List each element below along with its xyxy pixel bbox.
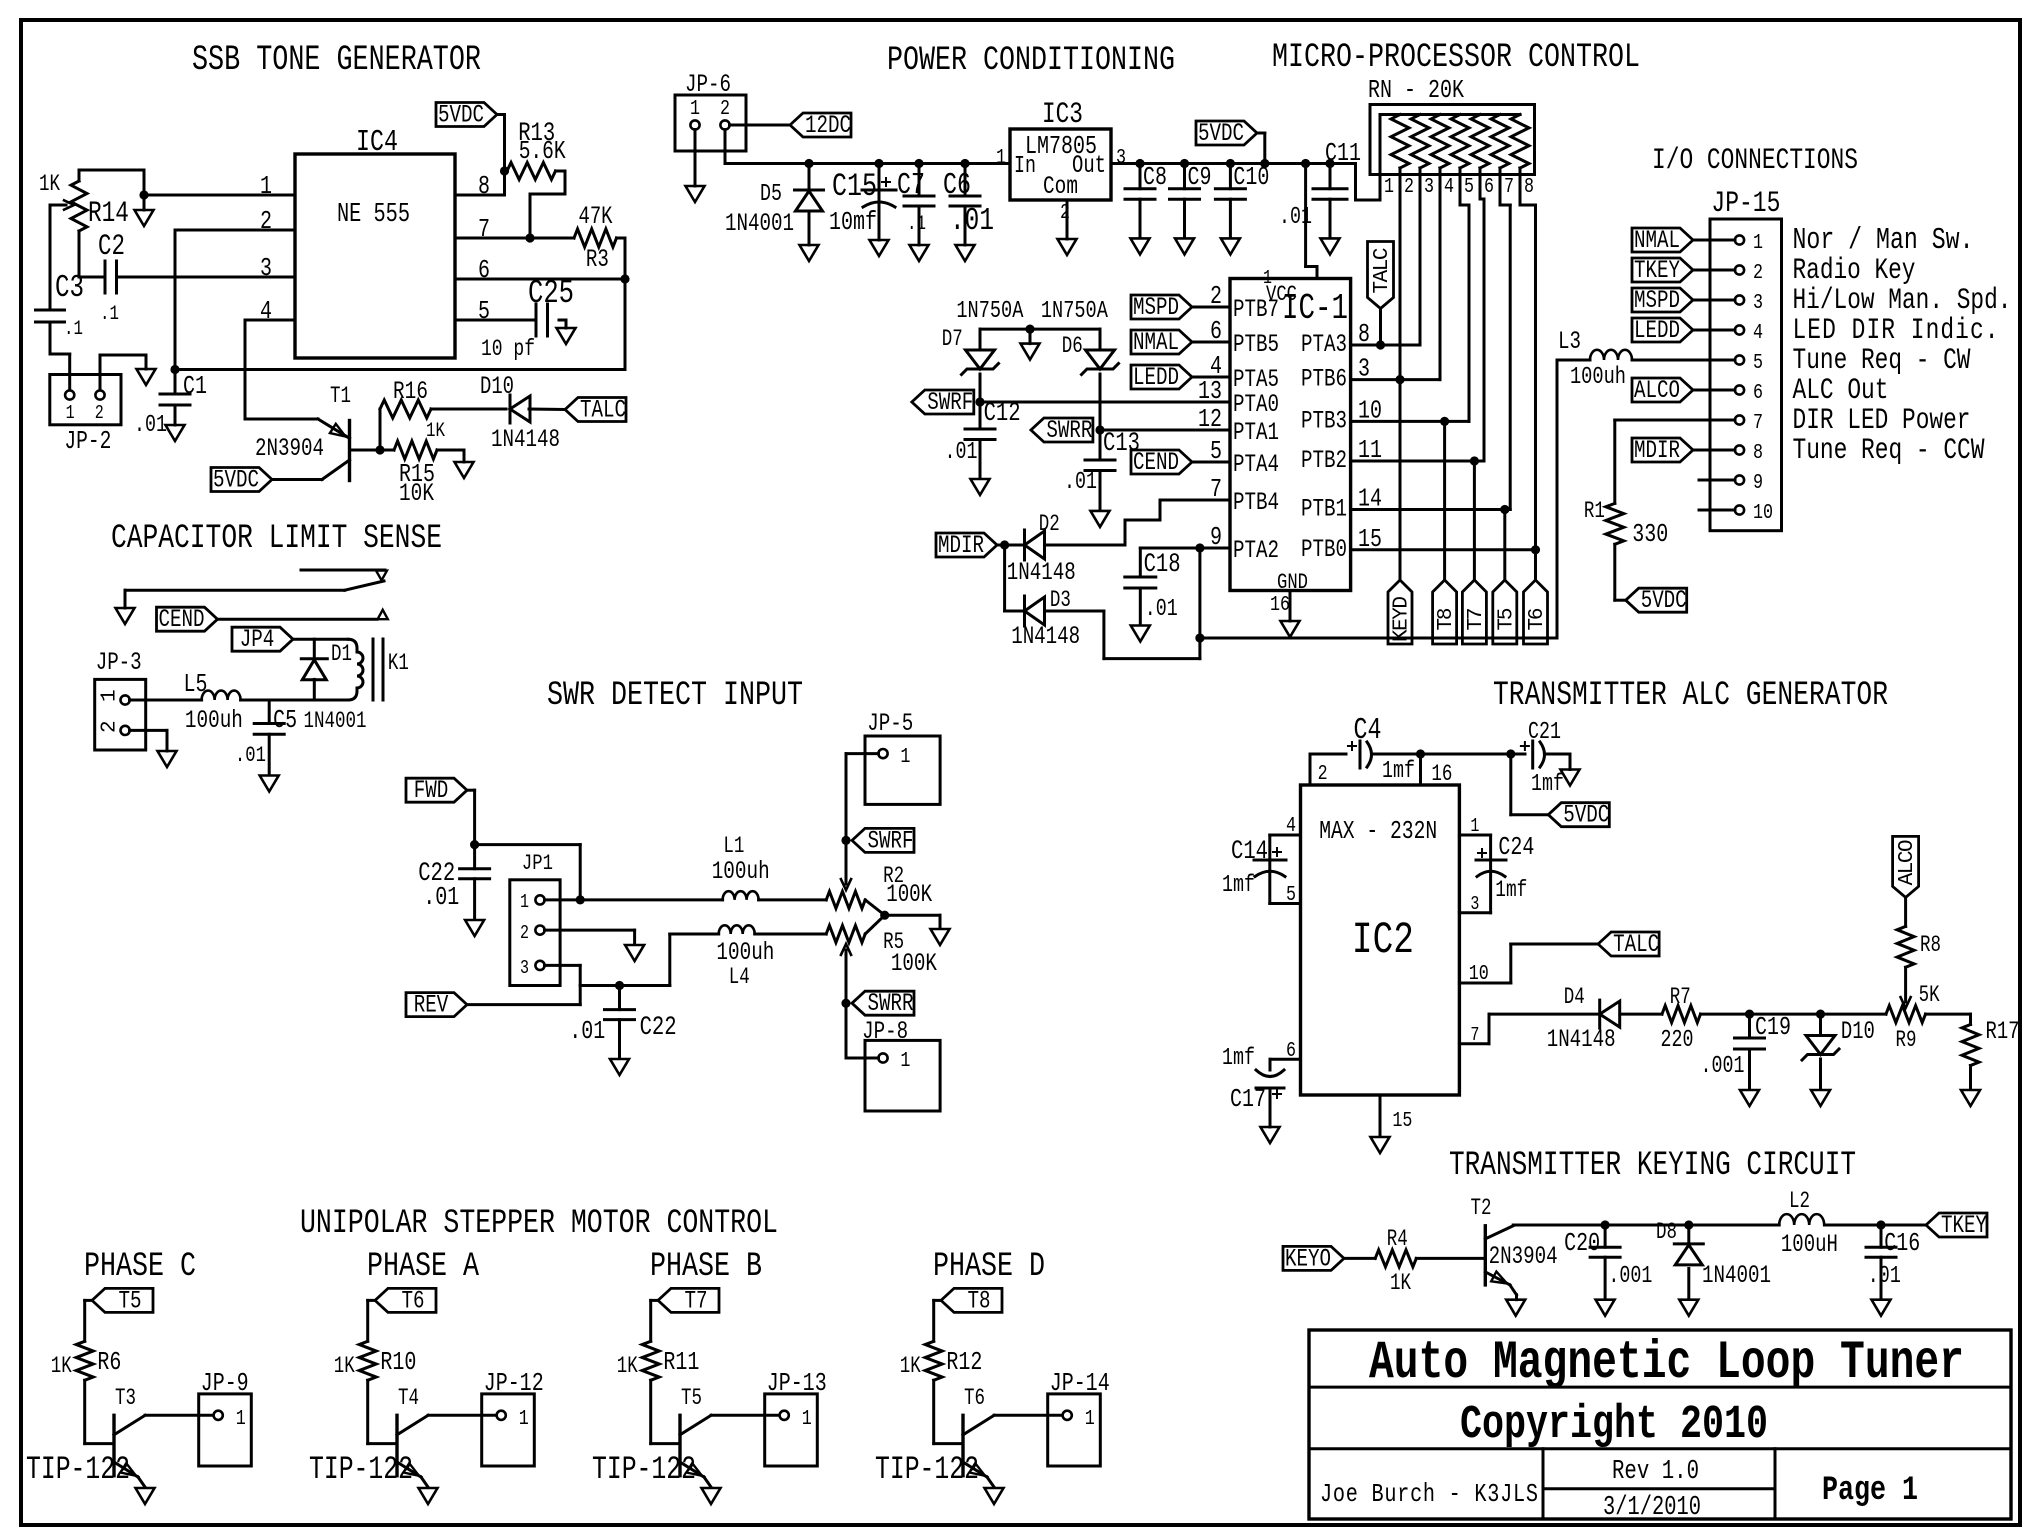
net flag MSPD — [1131, 295, 1192, 319]
svg-text:JP-8: JP-8 — [862, 1017, 908, 1046]
connector JP-2 — [50, 375, 121, 425]
ground at C5 — [260, 776, 279, 792]
svg-text:T5: T5 — [681, 1386, 702, 1412]
JP-15 pin 10 — [1735, 505, 1744, 514]
svg-text:.01: .01 — [134, 412, 167, 439]
svg-text:4: 4 — [1444, 174, 1454, 199]
svg-text:9: 9 — [1753, 470, 1763, 495]
svg-text:220: 220 — [1661, 1027, 1694, 1054]
svg-text:T7: T7 — [685, 1286, 708, 1315]
wire 5VDC to R13/pin8 — [497, 113, 505, 116]
svg-text:UNIPOLAR STEPPER MOTOR CONTROL: UNIPOLAR STEPPER MOTOR CONTROL — [300, 1204, 778, 1243]
node T7 junction — [1470, 456, 1479, 465]
JP-15 pin 9 — [1735, 475, 1744, 484]
wire to C21 — [1421, 753, 1511, 756]
svg-text:T3: T3 — [115, 1386, 136, 1412]
net flag T6 vertical — [1534, 550, 1537, 580]
svg-text:100uh: 100uh — [1570, 363, 1626, 391]
node C22b junction — [615, 981, 624, 990]
net flag SWRR at JP-8 — [852, 991, 914, 1015]
svg-text:100uH: 100uH — [1781, 1231, 1838, 1259]
svg-text:.01: .01 — [423, 883, 459, 912]
wire MDIR to D3 — [1003, 545, 1006, 611]
svg-text:D6: D6 — [1062, 334, 1083, 360]
node R13 pin8 junction — [500, 166, 509, 175]
svg-text:GND: GND — [1277, 569, 1308, 595]
wire REV to JP1 pin3 — [469, 1003, 581, 1006]
capacitor C1 .01 — [160, 393, 190, 396]
connector JP-12 — [482, 1394, 535, 1466]
svg-text:TALC: TALC — [580, 395, 626, 424]
wire JP1 pin1 to L1 — [545, 898, 723, 901]
svg-text:.01: .01 — [1868, 1263, 1901, 1290]
svg-text:R3: R3 — [586, 245, 609, 274]
capacitor C9 — [1183, 164, 1186, 189]
svg-text:Rev 1.0: Rev 1.0 — [1612, 1457, 1699, 1487]
resistor R7 220 — [1662, 1006, 1701, 1023]
svg-text:JP-12: JP-12 — [484, 1369, 544, 1398]
svg-text:5: 5 — [1286, 882, 1296, 907]
connector JP-6 — [675, 95, 746, 151]
JP-15 pin 2 — [1735, 265, 1744, 274]
svg-text:5.6K: 5.6K — [519, 137, 566, 166]
wire IC4 pin1 — [144, 194, 295, 197]
wire keying rail — [1513, 1224, 1779, 1227]
svg-text:D10: D10 — [1841, 1018, 1875, 1046]
wire JP-15 pin7 to R1 — [1615, 419, 1699, 422]
svg-text:R7: R7 — [1670, 985, 1691, 1011]
RN resistor element 2 — [1391, 115, 1409, 169]
svg-text:L4: L4 — [729, 965, 750, 991]
svg-text:1N750A: 1N750A — [1041, 298, 1108, 325]
node C21 junction — [1506, 749, 1515, 758]
wire JP-2 pin2 to ground — [99, 355, 102, 390]
wire IC4 pin7 — [455, 237, 574, 240]
svg-text:PTB5: PTB5 — [1233, 330, 1279, 359]
node R2 R5 junction — [880, 911, 889, 920]
svg-text:1K: 1K — [617, 1354, 639, 1380]
transistor T5 TIP-122 — [678, 1415, 681, 1475]
wire R7 to C19 D10 R9 — [1701, 1013, 1887, 1016]
inductor L4 100uh — [719, 925, 755, 934]
svg-text:.01: .01 — [1064, 469, 1097, 496]
diode D4 1N4148 — [1598, 1000, 1601, 1028]
svg-text:T6: T6 — [1526, 608, 1549, 631]
svg-text:TIP-122: TIP-122 — [26, 1451, 130, 1488]
wire PTB0 — [1351, 548, 1536, 551]
net flag T7 at PHASE B — [658, 1288, 719, 1312]
ground at C7 — [910, 245, 929, 261]
ground at D10 — [1811, 1090, 1830, 1106]
svg-text:100uh: 100uh — [185, 706, 243, 735]
net flag TALC at SSB — [565, 398, 626, 422]
svg-text:2N3904: 2N3904 — [1489, 1242, 1558, 1271]
ground at limit switch — [116, 608, 135, 624]
resistor R4 1K — [1375, 1250, 1416, 1267]
ground at C21 — [1561, 770, 1580, 786]
power flag 5VDC at T1 — [211, 468, 272, 492]
ground at C15 — [870, 240, 889, 256]
net flag FWD — [406, 778, 467, 802]
svg-text:TIP-122: TIP-122 — [309, 1451, 413, 1488]
svg-text:MICRO-PROCESSOR CONTROL: MICRO-PROCESSOR CONTROL — [1272, 38, 1640, 77]
svg-text:JP-15: JP-15 — [1711, 187, 1780, 221]
node C11 — [1325, 159, 1334, 168]
svg-text:D2: D2 — [1039, 512, 1060, 538]
svg-text:C19: C19 — [1755, 1013, 1791, 1042]
svg-text:1K: 1K — [39, 172, 61, 198]
svg-text:47K: 47K — [579, 203, 614, 231]
ground at R2 R5 — [931, 929, 950, 945]
transistor T3 TIP-122 — [112, 1415, 115, 1475]
RN resistor element 8 — [1511, 115, 1529, 169]
svg-text:2N3904: 2N3904 — [255, 434, 324, 463]
microcontroller IC-1 box — [1230, 279, 1351, 591]
svg-text:T8: T8 — [1435, 608, 1458, 631]
net flag MDIR at JP-15 — [1632, 438, 1693, 462]
wire IC2 pin7 to D4 — [1459, 1042, 1489, 1045]
svg-text:5: 5 — [1464, 174, 1474, 199]
node T6 junction — [1531, 545, 1540, 554]
svg-text:1: 1 — [996, 145, 1006, 170]
capacitor C20 .001 — [1604, 1225, 1607, 1247]
ground at T2 emitter — [1506, 1300, 1525, 1316]
svg-text:JP-2: JP-2 — [64, 427, 111, 456]
svg-text:1: 1 — [802, 1406, 812, 1431]
svg-text:5VDC: 5VDC — [213, 465, 259, 494]
svg-text:PTB4: PTB4 — [1233, 488, 1279, 517]
wire PTB3 — [1351, 420, 1469, 423]
wire R15 to ground — [437, 449, 464, 452]
switch blade upper contact — [301, 569, 385, 572]
svg-text:PTB7: PTB7 — [1233, 295, 1279, 324]
wire R9 to R17 — [1926, 1013, 1971, 1016]
node FWD C22 junction — [470, 840, 479, 849]
svg-text:TALC: TALC — [1613, 930, 1659, 959]
svg-text:4: 4 — [1286, 813, 1296, 838]
capacitor C4 1mf polarized — [1359, 741, 1362, 768]
svg-text:T8: T8 — [968, 1286, 991, 1315]
wire R16 to D10 — [431, 408, 506, 411]
RN resistor element 7 — [1491, 115, 1509, 169]
net flag TKEY at JP-15 — [1632, 258, 1693, 282]
wire junction to L4 — [620, 984, 670, 987]
JP-15 pin 7 — [1735, 415, 1744, 424]
svg-text:C1: C1 — [183, 372, 207, 401]
ground at C25 — [557, 328, 576, 344]
svg-text:PTA0: PTA0 — [1233, 390, 1279, 419]
svg-text:C15: C15 — [832, 168, 877, 205]
ground at C8 — [1131, 238, 1150, 254]
svg-text:3/1/2010: 3/1/2010 — [1603, 1493, 1701, 1523]
wire L5 to relay — [241, 699, 348, 702]
svg-text:1mf: 1mf — [1382, 758, 1415, 785]
potentiometer R5 100K — [826, 926, 865, 943]
zener diode D10 at ALC — [1819, 1014, 1822, 1035]
wire IC4 pin6 — [455, 278, 625, 281]
node C16 junction — [1876, 1220, 1885, 1229]
svg-text:R14: R14 — [88, 196, 129, 230]
svg-text:1K: 1K — [426, 419, 445, 443]
wire IC2 pin15 GND — [1379, 1095, 1382, 1136]
wire R12 to T6 base — [932, 1380, 935, 1443]
wire PTA1 — [1100, 429, 1230, 432]
svg-text:LED DIR Indic.: LED DIR Indic. — [1793, 313, 1999, 347]
svg-text:C20: C20 — [1564, 1229, 1600, 1258]
svg-text:MDIR: MDIR — [938, 531, 984, 560]
wire R3 to pin6 node — [617, 237, 626, 240]
wire RN pin7 to PTB1 — [1499, 175, 1502, 206]
svg-text:100K: 100K — [891, 949, 938, 978]
node SWRF at JP-5 — [841, 836, 850, 845]
svg-text:PHASE A: PHASE A — [367, 1247, 479, 1286]
svg-text:DIR LED Power: DIR LED Power — [1793, 403, 1971, 437]
svg-text:Page 1: Page 1 — [1822, 1471, 1918, 1510]
ground at JP-6 pin1 — [686, 186, 705, 202]
wire IC3 Com to ground — [1066, 200, 1069, 239]
wire wiper to C3 — [49, 205, 52, 310]
svg-text:JP-9: JP-9 — [201, 1369, 249, 1398]
svg-text:NMAL: NMAL — [1634, 226, 1680, 255]
resistor R12 1K — [925, 1341, 942, 1380]
svg-text:C22: C22 — [640, 1013, 677, 1043]
wire collector to JP-14 — [994, 1414, 1063, 1417]
svg-text:1: 1 — [236, 1406, 246, 1431]
svg-text:JP1: JP1 — [522, 850, 553, 876]
svg-text:R12: R12 — [946, 1348, 982, 1377]
svg-text:SWRF: SWRF — [927, 388, 973, 417]
node T1 R15 R16 junction — [375, 445, 384, 454]
connector JP-3 — [95, 679, 146, 750]
wire D10 to TALC flag — [529, 408, 565, 412]
capacitor C6 .01 — [964, 164, 967, 197]
svg-text:1: 1 — [99, 689, 122, 702]
svg-text:5VDC: 5VDC — [1563, 800, 1609, 829]
connector JP-15 — [1710, 219, 1782, 531]
svg-text:1N4148: 1N4148 — [1011, 622, 1080, 651]
wire KEYO to R4 — [1344, 1257, 1375, 1260]
ic IC2 MAX-232N box — [1301, 785, 1460, 1095]
wire IC2 pin6 C17 — [1270, 1058, 1301, 1061]
svg-text:5VDC: 5VDC — [1198, 119, 1244, 148]
net flag MDIR at IC-1 — [936, 533, 997, 557]
svg-text:T7: T7 — [1465, 608, 1488, 631]
node D5 junction — [804, 159, 813, 168]
resistor R1 330 — [1606, 503, 1624, 544]
wire RN pin4 to PTB6 wire end — [1439, 175, 1442, 380]
node C10 — [1226, 159, 1235, 168]
svg-text:1K: 1K — [51, 1354, 73, 1380]
svg-text:12DC: 12DC — [805, 111, 851, 140]
svg-text:10: 10 — [1469, 961, 1489, 986]
svg-text:C12: C12 — [984, 399, 1021, 429]
svg-text:SWRF: SWRF — [868, 826, 914, 855]
svg-text:LEDD: LEDD — [1634, 316, 1680, 345]
capacitor C10 — [1229, 164, 1232, 189]
ground at C13 — [1091, 511, 1110, 527]
net flag T5 vertical — [1503, 510, 1506, 581]
node 5VDC flag drop — [1260, 159, 1269, 168]
wire C25 to ground — [559, 319, 566, 322]
node rail junction — [1195, 633, 1204, 642]
resistor R3 47K — [574, 229, 617, 247]
capacitor C21 1mf polarized — [1511, 753, 1525, 756]
svg-text:330: 330 — [1632, 520, 1668, 549]
resistor R11 1K — [642, 1341, 659, 1380]
svg-text:2: 2 — [1753, 260, 1763, 285]
ground at C22b — [610, 1059, 629, 1075]
svg-text:T5: T5 — [119, 1286, 142, 1315]
net flag NMAL — [1131, 330, 1192, 354]
ground at IC2 pin15 — [1371, 1137, 1390, 1153]
wire R1 to 5VDC — [1613, 544, 1616, 600]
svg-text:FWD: FWD — [414, 776, 449, 805]
svg-text:15: 15 — [1392, 1108, 1412, 1133]
svg-text:PTB2: PTB2 — [1301, 446, 1347, 475]
svg-text:C8: C8 — [1143, 163, 1167, 192]
power flag 5VDC at IC4 pin8 — [436, 103, 497, 127]
capacitor C19 .001 — [1748, 1014, 1751, 1038]
node T8 junction — [1440, 417, 1449, 426]
wire PTB1 — [1351, 508, 1511, 511]
R14 wiper arrow — [50, 204, 66, 207]
net flag 12DC — [790, 113, 851, 137]
wire JP-8 pin1 — [845, 1003, 848, 1058]
wire PTB6 — [1351, 378, 1440, 381]
wire IC2 pin1 pin3 C24 — [1459, 834, 1490, 837]
svg-text:NMAL: NMAL — [1133, 328, 1179, 357]
svg-text:4: 4 — [1753, 320, 1763, 345]
wire collector to JP-12 — [428, 1414, 497, 1417]
wire collector to JP-9 — [145, 1414, 214, 1417]
svg-text:5VDC: 5VDC — [1641, 586, 1687, 615]
resistor R10 1K — [359, 1341, 376, 1380]
svg-text:.01: .01 — [950, 203, 994, 239]
diode D8 1N4001 — [1687, 1225, 1690, 1244]
svg-text:1K: 1K — [1390, 1271, 1412, 1297]
svg-text:3: 3 — [520, 958, 529, 979]
svg-text:PTA3: PTA3 — [1301, 330, 1347, 359]
svg-text:1: 1 — [520, 892, 529, 913]
wire IC2 pin4 pin5 C14 — [1270, 834, 1301, 837]
node C20 junction — [1601, 1220, 1610, 1229]
svg-text:SWRR: SWRR — [868, 989, 914, 1018]
resistor network RN - 20K — [1370, 105, 1535, 175]
wire JP-6 pin2 to 12DC — [730, 124, 791, 127]
wire R6 to T3 base — [83, 1380, 86, 1443]
node KEYD junction — [1395, 375, 1404, 384]
capacitor C8 — [1139, 164, 1142, 189]
svg-text:C17: C17 — [1230, 1085, 1266, 1114]
svg-text:CAPACITOR LIMIT SENSE: CAPACITOR LIMIT SENSE — [111, 520, 442, 558]
svg-text:SWR DETECT INPUT: SWR DETECT INPUT — [547, 676, 803, 715]
ground at C1 — [174, 405, 177, 425]
ground at T3 — [136, 1488, 155, 1504]
wire RN pin8 to PTB0 — [1519, 175, 1522, 206]
svg-text:1: 1 — [690, 96, 700, 121]
svg-text:.001: .001 — [1608, 1263, 1652, 1290]
svg-text:MAX - 232N: MAX - 232N — [1319, 817, 1437, 846]
svg-text:1mf: 1mf — [1222, 1045, 1255, 1072]
svg-text:100uh: 100uh — [716, 938, 774, 967]
op-amp IC4 NE555 box — [295, 154, 455, 358]
wire D3 to PTA2 — [1045, 610, 1104, 613]
ground at C6 — [956, 245, 975, 261]
svg-text:2: 2 — [1404, 174, 1414, 199]
svg-text:Radio Key: Radio Key — [1793, 253, 1916, 287]
ground at T5 — [702, 1488, 721, 1504]
inductor L3 100uh — [1557, 359, 1590, 362]
JP-15 pin 6 — [1735, 385, 1744, 394]
svg-text:MDIR: MDIR — [1634, 436, 1680, 465]
wire 12V rail — [724, 130, 727, 164]
svg-text:C16: C16 — [1884, 1229, 1920, 1258]
resistor R17 — [1962, 1025, 1979, 1066]
wire JP-3 pin2 to ground — [130, 729, 168, 732]
wire RN pin5 to PTB3 — [1459, 175, 1462, 206]
net flag ALCO at JP-15 — [1632, 378, 1693, 402]
svg-text:1N4148: 1N4148 — [1547, 1025, 1616, 1054]
svg-text:PTB3: PTB3 — [1301, 406, 1347, 435]
net flag TALC vertical — [1368, 242, 1394, 309]
wire L1 to R2 — [759, 898, 827, 901]
wire 5V rail — [1111, 162, 1356, 165]
ground at R17 — [1961, 1090, 1980, 1106]
svg-text:JP-14: JP-14 — [1050, 1369, 1110, 1398]
svg-text:.01: .01 — [569, 1017, 605, 1046]
connector JP-9 — [199, 1394, 252, 1466]
svg-text:JP-13: JP-13 — [767, 1369, 827, 1398]
svg-text:Com: Com — [1043, 172, 1078, 201]
svg-text:C13: C13 — [1103, 429, 1140, 459]
svg-text:.1: .1 — [64, 317, 83, 341]
wire IC4 pin8 — [455, 194, 505, 197]
svg-text:10mf: 10mf — [829, 208, 877, 237]
node C9 — [1180, 159, 1189, 168]
svg-text:C6: C6 — [943, 169, 971, 203]
wire JP-6 pin1 to ground — [694, 130, 697, 187]
svg-text:3: 3 — [1116, 145, 1126, 170]
ground at C19 — [1740, 1090, 1759, 1106]
ground at C17 — [1261, 1127, 1280, 1143]
svg-text:KEYD: KEYD — [1391, 596, 1414, 642]
resistor R15 10K — [394, 441, 437, 459]
svg-text:T1: T1 — [330, 384, 351, 410]
capacitor C11 .01 — [1329, 164, 1332, 189]
svg-text:PTB0: PTB0 — [1301, 535, 1347, 564]
capacitor C2 .1 — [104, 261, 107, 293]
svg-text:R4: R4 — [1387, 1227, 1408, 1253]
wire PTB2 — [1351, 460, 1484, 463]
net flag KEYD vertical — [1399, 380, 1402, 580]
net flag TKEY — [1926, 1213, 1987, 1237]
svg-text:.01: .01 — [945, 439, 978, 466]
zener diode D6 1N750A — [1099, 329, 1102, 350]
svg-text:C14: C14 — [1231, 837, 1268, 867]
capacitor C12 .01 — [979, 402, 982, 429]
svg-text:1: 1 — [519, 1406, 529, 1431]
svg-text:SWRR: SWRR — [1046, 416, 1092, 445]
svg-text:D5: D5 — [760, 181, 782, 208]
svg-text:C10: C10 — [1233, 163, 1269, 192]
svg-text:R11: R11 — [663, 1348, 699, 1377]
wire bottom rail — [175, 368, 625, 371]
svg-text:PTA4: PTA4 — [1233, 450, 1279, 479]
svg-text:7: 7 — [1470, 1025, 1479, 1046]
svg-text:TRANSMITTER KEYING CIRCUIT: TRANSMITTER KEYING CIRCUIT — [1449, 1147, 1856, 1185]
ground at IC-1 GND — [1281, 621, 1300, 637]
ground at C12 — [971, 479, 990, 495]
